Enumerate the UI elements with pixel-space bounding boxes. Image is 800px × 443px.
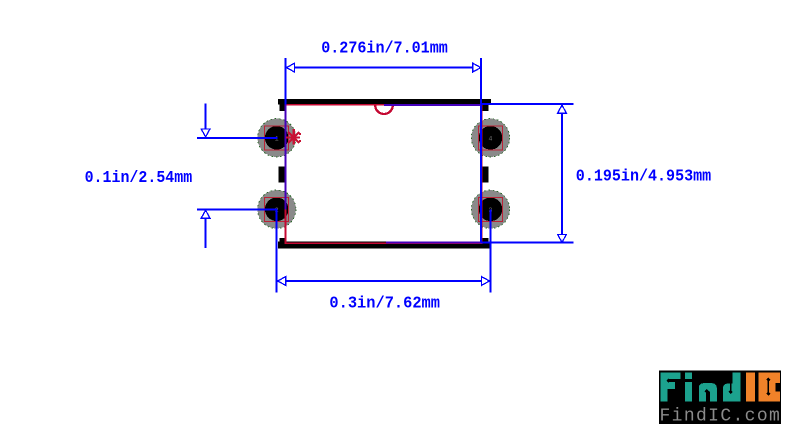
- pin 1 marker (red asterisk): [286, 129, 301, 144]
- top dimension line: [287, 67, 481, 69]
- bottom dimension extension line right (from pad 3 down): [490, 209, 492, 292]
- component body outline (red rectangle): [286, 105, 482, 244]
- logo F circuit dot: [667, 378, 681, 382]
- left dimension leader line row 2: [197, 208, 278, 210]
- bottom dimension extension line left (from pad 2 down): [276, 209, 278, 292]
- logo C circuit cut: [766, 378, 770, 396]
- svg-text:1: 1: [275, 136, 279, 143]
- silkscreen right edge top stub: [482, 99, 489, 111]
- pad 3 (bottom-right): [471, 190, 509, 228]
- svg-text:0.3in/7.62mm: 0.3in/7.62mm: [329, 295, 440, 314]
- FindIC logo block: [659, 370, 781, 426]
- top dimension extension line left (overlaps red body edge below y105): [285, 58, 287, 105]
- svg-text:0.276in/7.01mm: 0.276in/7.01mm: [321, 39, 448, 58]
- pad 2 (bottom-left): [258, 190, 296, 228]
- silkscreen bottom bar: [278, 241, 491, 248]
- pad 1 (top-left): [258, 119, 296, 157]
- logo letter C (orange): [758, 373, 780, 402]
- silkscreen left edge bottom stub: [280, 238, 287, 249]
- bottom dimension line: [278, 280, 490, 282]
- silkscreen left edge middle segment: [279, 167, 286, 183]
- svg-text:4: 4: [489, 136, 493, 143]
- top dimension left arrowhead: [287, 63, 295, 72]
- logo letter I (orange): [746, 373, 755, 402]
- logo letter n (teal): [699, 383, 717, 401]
- silkscreen left edge top stub: [280, 99, 287, 111]
- logo n circuit dot: [705, 389, 709, 401]
- left dimension line upper segment: [205, 104, 207, 130]
- pin-1 end notch (red semicircle): [375, 105, 393, 114]
- left dimension up arrowhead: [201, 210, 210, 218]
- svg-text:0.1in/2.54mm: 0.1in/2.54mm: [85, 169, 193, 188]
- bottom dimension right arrowhead: [482, 277, 490, 286]
- top dimension right arrowhead: [473, 63, 481, 72]
- left dimension down arrowhead: [201, 129, 210, 137]
- right dimension top arrowhead: [558, 105, 567, 113]
- logo letter F (teal): [660, 372, 680, 401]
- silkscreen top bar: [278, 99, 491, 105]
- right dimension extension line bottom: [386, 241, 481, 243]
- top dimension extension line right: [480, 58, 482, 242]
- svg-text:FindIC.com: FindIC.com: [660, 407, 780, 427]
- silkscreen right edge middle segment: [482, 167, 488, 183]
- right dimension extension line top (overlaps red body top edge): [384, 104, 481, 106]
- pad 4 (top-right): [471, 119, 509, 157]
- left dimension leader line row 1: [197, 137, 278, 139]
- left dimension line lower segment: [205, 217, 207, 248]
- right dimension line: [561, 106, 563, 242]
- bottom dimension left arrowhead: [278, 277, 286, 286]
- right dimension bottom arrowhead: [558, 234, 567, 242]
- silkscreen right edge bottom stub: [482, 238, 489, 249]
- logo d circuit dot: [729, 378, 733, 394]
- logo letter d (teal): [723, 373, 741, 402]
- svg-text:0.195in/4.953mm: 0.195in/4.953mm: [576, 168, 711, 187]
- logo letter i (teal): [685, 372, 692, 379]
